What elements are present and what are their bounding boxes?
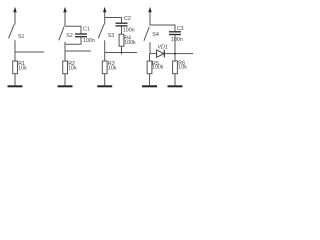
svg-text:C3: C3	[177, 26, 184, 32]
svg-text:10k: 10k	[178, 65, 187, 71]
svg-text:S2: S2	[66, 33, 73, 39]
svg-text:S3: S3	[108, 33, 115, 39]
svg-text:100n: 100n	[171, 37, 183, 43]
svg-text:100k: 100k	[124, 40, 136, 46]
svg-text:10k: 10k	[68, 66, 77, 72]
svg-text:100n: 100n	[83, 38, 95, 44]
svg-text:VD1: VD1	[158, 44, 168, 50]
svg-text:C2: C2	[124, 16, 131, 22]
svg-text:S1: S1	[18, 34, 25, 40]
svg-text:100n: 100n	[123, 28, 135, 34]
svg-text:S4: S4	[152, 32, 159, 38]
svg-text:100k: 100k	[152, 65, 164, 71]
svg-text:C1: C1	[83, 27, 90, 33]
svg-text:10k: 10k	[18, 66, 27, 72]
svg-text:10k: 10k	[108, 66, 117, 72]
